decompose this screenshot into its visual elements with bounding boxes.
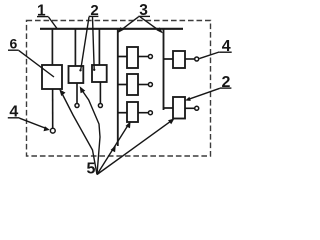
svg-text:5: 5 <box>86 160 95 177</box>
svg-text:6: 6 <box>10 36 18 52</box>
